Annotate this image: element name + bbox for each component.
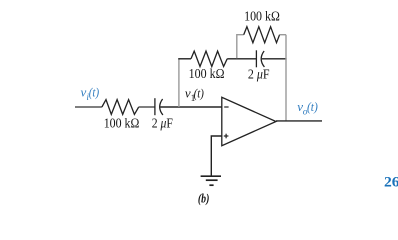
- svg-text:100 kΩ: 100 kΩ: [104, 117, 140, 132]
- wire: right vertical down to output node: [285, 35, 287, 122]
- wire: node v1 up to feedback branch: [178, 59, 180, 107]
- svg-text:100 kΩ: 100 kΩ: [244, 10, 280, 25]
- label v_i(t): [81, 85, 100, 104]
- op-amp plus sign: [224, 134, 229, 139]
- op-amp U1: [222, 97, 276, 145]
- svg-text:(t): (t): [89, 85, 99, 100]
- resistor R2 100 kΩ (feedback series): [191, 51, 227, 66]
- capacitor C2 2 µF (feedback): [256, 50, 264, 67]
- wire: junction between R2 and C2 up to top branch: [237, 35, 244, 59]
- label v_1(t): [185, 85, 204, 104]
- svg-text:2 μF: 2 μF: [152, 117, 173, 132]
- wire: R2 to C2: [227, 58, 256, 60]
- op-amp minus sign: [224, 106, 228, 108]
- wire: input lead: [75, 106, 102, 108]
- resistor R1 100 kΩ (input): [102, 100, 139, 115]
- svg-text:2 μF: 2 μF: [248, 68, 270, 83]
- wire: C1 to op-amp inverting input, node v1: [160, 106, 222, 108]
- capacitor C1 2 µF (input): [155, 98, 163, 115]
- wire: C2 to right vertical: [262, 58, 287, 60]
- svg-text:(b): (b): [198, 192, 210, 206]
- svg-text:26: 26: [384, 175, 398, 191]
- svg-text:100 kΩ: 100 kΩ: [189, 67, 225, 82]
- svg-text:(t): (t): [194, 85, 204, 100]
- wire: R1 to C1: [139, 106, 155, 108]
- wire: output: [276, 120, 322, 122]
- wire: top branch right segment: [280, 34, 286, 36]
- wire: feedback branch left segment: [178, 58, 191, 60]
- label v_o(t): [297, 99, 318, 118]
- svg-text:(t): (t): [307, 99, 318, 114]
- resistor R3 100 kΩ (top, parallel with C2): [244, 27, 280, 43]
- wire: non-inverting input to ground: [211, 136, 222, 176]
- ground: [201, 176, 221, 185]
